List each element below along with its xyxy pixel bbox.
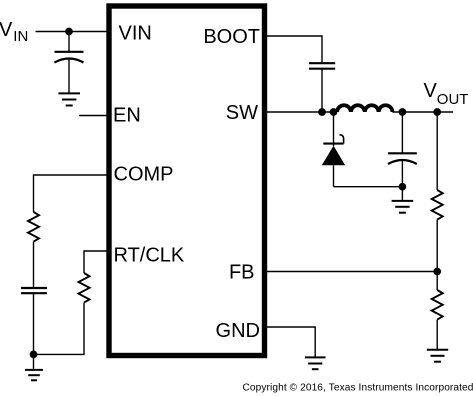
- wire Cout ground stub: [401, 187, 403, 201]
- capacitor C-comp: [21, 288, 47, 293]
- wire SW rail: [264, 111, 337, 113]
- wire diode to Cout ground node: [334, 186, 403, 188]
- wire after inductor: [393, 111, 454, 113]
- ground (comp branch): [25, 370, 43, 380]
- svg-text:GND: GND: [216, 320, 260, 342]
- wire bottom link RT to node: [34, 353, 85, 355]
- wire R-comp to C-comp: [33, 242, 35, 288]
- wire R-rt bottom lead: [83, 303, 85, 356]
- net label VOUT: [424, 80, 469, 108]
- svg-text:Copyright © 2016, Texas Instru: Copyright © 2016, Texas Instruments Inco…: [243, 383, 473, 394]
- svg-text:V: V: [0, 19, 13, 41]
- ground (fb divider): [427, 350, 448, 362]
- svg-text:FB: FB: [229, 261, 255, 283]
- IC U1 body: [109, 6, 265, 356]
- svg-text:SW: SW: [226, 102, 258, 124]
- wire diode top lead: [333, 112, 335, 146]
- svg-text:VIN: VIN: [119, 22, 152, 44]
- svg-text:OUT: OUT: [437, 91, 469, 108]
- wire RT/CLK vertical to R: [83, 250, 85, 273]
- wire GND pin stub: [264, 326, 315, 328]
- wire C-comp to ground node: [33, 293, 35, 370]
- wire RT/CLK horizontal: [84, 250, 109, 252]
- wire input cap bottom lead: [68, 60, 70, 94]
- node junction SW/Cout: [399, 108, 407, 116]
- wire Cout top lead: [401, 112, 403, 153]
- node junction VOUT: [433, 108, 441, 116]
- wire input cap top lead: [68, 32, 70, 52]
- svg-text:BOOT: BOOT: [203, 26, 260, 48]
- svg-text:COMP: COMP: [114, 163, 174, 185]
- wire VOUT down to R-fb1: [436, 112, 438, 190]
- diode D1 schottky: [322, 135, 345, 166]
- node junction SW/diode: [330, 108, 338, 116]
- capacitor C-boot: [309, 63, 335, 68]
- svg-text:RT/CLK: RT/CLK: [114, 245, 185, 267]
- ground (input cap): [58, 93, 80, 105]
- wire R-fb2 to ground: [436, 320, 438, 350]
- wire COMP vertical to R: [33, 174, 35, 212]
- wire Cout bottom lead: [401, 161, 403, 187]
- wire COMP horizontal: [34, 174, 110, 176]
- node junction bottom-left: [30, 351, 38, 359]
- resistor R-comp: [28, 212, 39, 242]
- resistor R-fb1: [432, 190, 443, 220]
- svg-text:IN: IN: [13, 28, 28, 45]
- capacitor Cin (polarized): [55, 52, 84, 63]
- wire FB node to R-fb2: [436, 272, 438, 291]
- wire FB horizontal: [264, 271, 437, 273]
- node junction on VIN: [65, 28, 73, 36]
- wire diode bottom lead: [333, 165, 335, 186]
- node junction SW/boot: [318, 108, 326, 116]
- node junction Cout/diode/ground: [399, 183, 407, 191]
- wire EN stub: [79, 115, 109, 117]
- inductor L1: [337, 105, 393, 112]
- resistor R-rt: [79, 273, 90, 303]
- wire GND down: [314, 326, 316, 357]
- wire R-fb1 to FB node: [436, 220, 438, 272]
- resistor R-fb2: [432, 290, 443, 320]
- wire VIN input: [36, 31, 110, 33]
- ground (output cap): [392, 201, 414, 213]
- wire BOOT horizontal: [264, 35, 322, 37]
- ground (GND pin): [305, 357, 326, 369]
- svg-text:V: V: [424, 80, 438, 102]
- wire C-boot to SW: [321, 69, 323, 112]
- svg-text:EN: EN: [113, 105, 141, 127]
- wire BOOT down to cap: [321, 35, 323, 63]
- capacitor Cout (polarized): [388, 153, 417, 164]
- node junction FB: [433, 268, 441, 276]
- net label VIN: [0, 19, 28, 45]
